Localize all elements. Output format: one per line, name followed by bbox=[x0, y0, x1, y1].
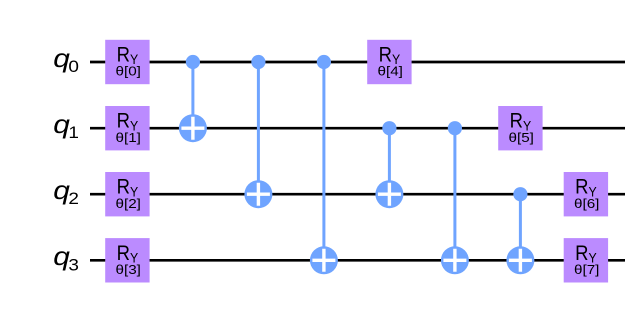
CNOT control dot on q0 col1 bbox=[186, 55, 200, 69]
svg-text:θ[7]: θ[7] bbox=[574, 262, 599, 276]
CNOT target on q1 col1 bbox=[179, 114, 207, 142]
gate RY theta[4] on q0 bbox=[367, 40, 411, 84]
svg-text:θ[4]: θ[4] bbox=[377, 64, 402, 78]
svg-text:θ[2]: θ[2] bbox=[115, 196, 140, 210]
gate RY theta[0] on q0 bbox=[105, 40, 149, 84]
gate RY theta[6] on q2 bbox=[564, 172, 608, 216]
svg-text:θ[1]: θ[1] bbox=[115, 130, 140, 144]
gate RY theta[5] on q1 bbox=[498, 106, 542, 150]
CNOT q2-&gt;q3 vertical wire bbox=[519, 194, 522, 260]
gate RY theta[1] on q1 bbox=[105, 106, 149, 150]
CNOT target on q3 col6 bbox=[506, 246, 534, 274]
svg-text:1: 1 bbox=[68, 123, 79, 142]
CNOT q0-&gt;q3 vertical wire bbox=[322, 62, 325, 260]
svg-text:θ[6]: θ[6] bbox=[574, 196, 599, 210]
CNOT target on q3 col5 bbox=[441, 246, 469, 274]
wire q2 bbox=[90, 193, 625, 196]
qubit label q1 bbox=[53, 110, 79, 142]
CNOT q0-&gt;q1 vertical wire bbox=[191, 62, 194, 128]
svg-text:θ[0]: θ[0] bbox=[115, 64, 140, 78]
gate RY theta[7] on q3 bbox=[564, 238, 608, 282]
svg-text:θ[3]: θ[3] bbox=[115, 262, 140, 276]
gate RY theta[3] on q3 bbox=[105, 238, 149, 282]
CNOT target on q3 col3 bbox=[310, 246, 338, 274]
gate RY theta[2] on q2 bbox=[105, 172, 149, 216]
svg-text:3: 3 bbox=[68, 255, 79, 274]
CNOT control dot on q0 col3 bbox=[317, 55, 331, 69]
CNOT q0-&gt;q2 vertical wire bbox=[257, 62, 260, 194]
CNOT control dot on q1 col4 bbox=[382, 121, 396, 135]
svg-text:2: 2 bbox=[68, 189, 79, 208]
CNOT q1-&gt;q2 vertical wire bbox=[388, 128, 391, 194]
qubit label q0 bbox=[53, 44, 79, 76]
CNOT q1-&gt;q3 vertical wire bbox=[453, 128, 456, 260]
wire q0 bbox=[90, 61, 625, 64]
CNOT control dot on q1 col5 bbox=[448, 121, 462, 135]
wire q1 bbox=[90, 127, 625, 130]
CNOT control dot on q0 col2 bbox=[251, 55, 265, 69]
CNOT target on q2 col4 bbox=[375, 180, 403, 208]
qubit label q3 bbox=[53, 242, 79, 274]
CNOT control dot on q2 col6 bbox=[513, 187, 527, 201]
svg-text:0: 0 bbox=[68, 57, 79, 76]
svg-text:θ[5]: θ[5] bbox=[508, 130, 533, 144]
qubit label q2 bbox=[53, 176, 79, 208]
CNOT target on q2 col2 bbox=[244, 180, 272, 208]
wire q3 bbox=[90, 259, 625, 262]
